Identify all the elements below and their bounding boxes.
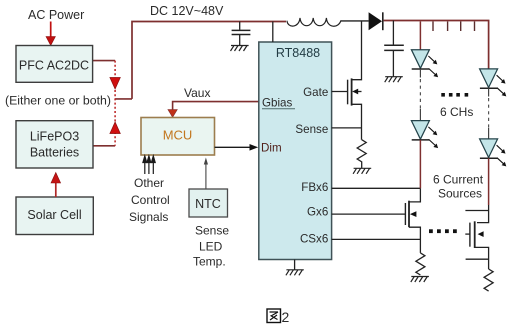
svg-text:RT8488: RT8488 [276,46,320,60]
svg-text:NTC: NTC [195,197,221,211]
caption figure 2 [267,309,281,323]
wire VIN tap to chip [272,22,274,43]
svg-text:Dim: Dim [261,142,282,155]
svg-text:LED: LED [199,240,223,254]
wire OR-node junction to bus [115,98,132,100]
svg-text:Gate: Gate [303,86,328,99]
arrow NTC to MCU [205,163,207,189]
svg-text:6 CHs: 6 CHs [440,105,473,119]
block NTC [189,189,228,217]
LED D1b [411,121,438,149]
block LiFePO3 Batteries [16,121,93,168]
svg-text:Temp.: Temp. [193,255,226,269]
svg-text:Sense: Sense [195,224,229,238]
wire inter-LED dashed string2 [488,88,490,96]
other control signal arrows into MCU [143,156,155,174]
LED string 1 top stub [419,22,421,50]
svg-text:2: 2 [282,309,290,325]
LED D1a [411,50,438,77]
wire main DC bus (maroon) [132,22,286,99]
wire inter-LED dashed string1 [419,69,421,78]
arrow down (PFC path) [110,78,120,90]
wire Vaux from Gbias to MCU [173,102,259,111]
ground input cap [231,46,249,52]
wire MCU Dim output [215,146,251,148]
wire dotted OR-ing line [114,61,116,146]
wire string2 down (maroon) [488,158,490,205]
dots more current sources [429,229,457,233]
svg-text:Gx6: Gx6 [307,206,328,219]
svg-text:(Either one or both): (Either one or both) [5,94,111,108]
svg-text:CSx6: CSx6 [300,233,328,246]
wire CSx6 [332,238,421,240]
block MCU [141,118,215,156]
ground chip [294,260,296,270]
wire Sense [332,127,362,129]
svg-text:Vaux: Vaux [184,86,210,100]
resistor sense R [357,140,366,168]
capacitor input cap [239,22,241,30]
ground sense R [353,168,371,174]
dots more channels (top) [441,93,468,97]
svg-text:LiFePO3: LiFePO3 [30,130,79,144]
wire string1 to FB node (maroon) [419,140,421,188]
resistor current source 2 [484,269,493,291]
arrow Dim into chip [250,144,259,151]
IC RT8488 [259,42,332,260]
svg-text:Batteries: Batteries [30,146,79,160]
wire Gx6 [332,213,406,215]
svg-text:Control: Control [131,193,170,207]
inductor L [287,18,341,26]
wire inductor to diode [341,20,369,22]
wire output bus (maroon) [384,21,489,69]
svg-text:Solar Cell: Solar Cell [27,208,81,222]
arrow up (battery path) [110,122,120,134]
wire FBx6 [332,187,421,189]
ground output cap [385,77,403,83]
block Solar Cell [16,197,93,235]
transistor current source 1 [405,188,420,253]
svg-text:Other: Other [134,176,164,190]
transistor current source 2 [465,205,488,269]
svg-text:FBx6: FBx6 [301,181,328,194]
arrow AC Power into PFC [50,22,52,40]
block PFC AC2DC [16,46,93,83]
wire PFC output [93,60,116,62]
svg-text:DC 12V~48V: DC 12V~48V [150,4,224,18]
svg-text:Sources: Sources [438,187,482,201]
svg-text:6 Current: 6 Current [433,173,484,187]
svg-text:Sense: Sense [295,123,328,136]
diode boost rectifier [369,12,382,30]
arrow Solar Cell to battery [55,181,57,197]
transistor boost MOSFET [332,21,362,140]
capacitor output cap [392,21,394,45]
resistor current source 1 [416,253,425,275]
ground current source 1 [411,277,429,283]
svg-text:MCU: MCU [163,128,193,143]
svg-text:Signals: Signals [129,210,168,224]
svg-text:Gbias: Gbias [262,97,292,110]
arrow Vaux into MCU [168,110,177,118]
svg-text:AC Power: AC Power [28,8,84,22]
channel tap stubs [433,22,475,32]
wire battery output [93,145,115,147]
LED D2a [480,69,507,97]
LED D2b [480,139,507,167]
svg-text:PFC AC2DC: PFC AC2DC [19,59,89,73]
